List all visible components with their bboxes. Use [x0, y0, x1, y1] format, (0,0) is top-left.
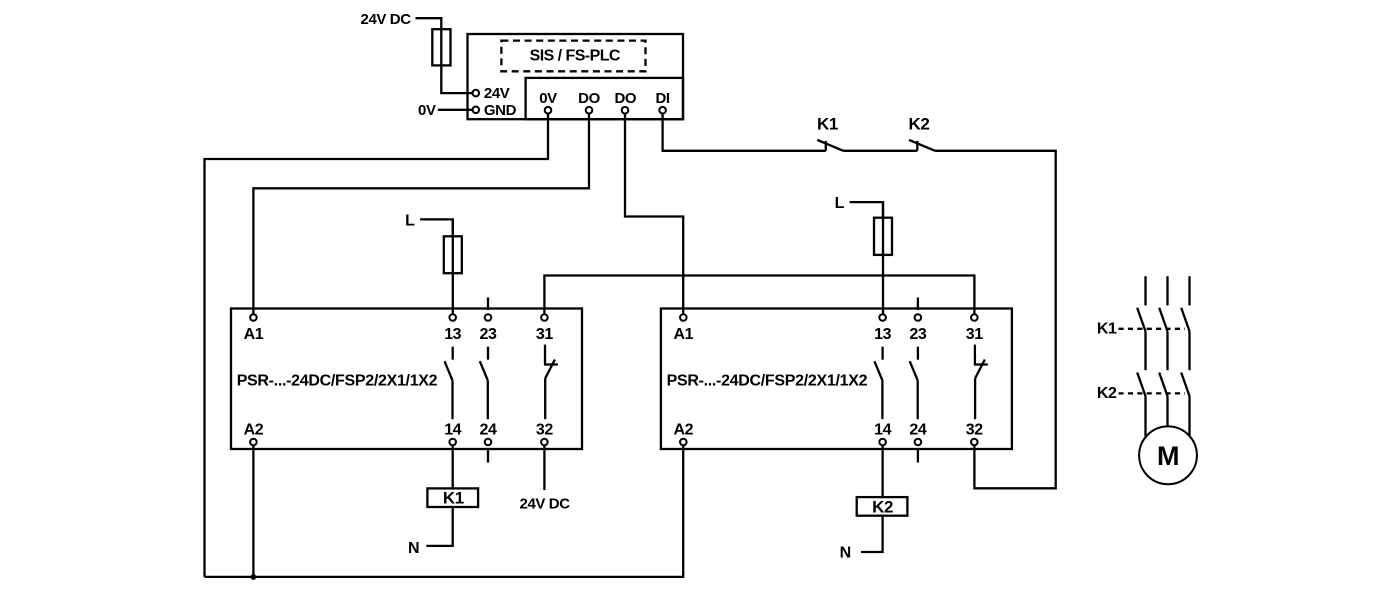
dashed box SIS / FS-PLC: [501, 41, 645, 72]
wire 14 relay1 to coil K1: [452, 445, 454, 488]
wire 0V label to GND terminal: [438, 109, 473, 111]
svg-text:A1: A1: [673, 326, 693, 343]
contact 13-14 NO of relay 1: [445, 347, 453, 420]
svg-text:K1: K1: [443, 489, 464, 508]
fuse F2: [444, 219, 462, 313]
svg-text:K1: K1: [817, 115, 838, 134]
svg-text:31: 31: [966, 326, 983, 343]
terminal A2 of relay 2: [680, 439, 687, 446]
svg-text:L: L: [405, 212, 415, 229]
relay box relay 2: [661, 309, 1012, 450]
wire fuse F1 to 24V terminal: [441, 65, 472, 93]
wire DO2 to A1 of relay 2: [625, 114, 683, 314]
contact 23-24 NO of relay 1: [480, 347, 488, 420]
svg-text:14: 14: [444, 421, 461, 438]
svg-text:32: 32: [536, 421, 553, 438]
terminal 13 of relay 1: [449, 314, 456, 321]
wire phase L2 supply stub: [1166, 276, 1168, 305]
terminal 32 of relay 2: [971, 439, 978, 446]
svg-text:24V DC: 24V DC: [520, 495, 571, 512]
svg-text:DO: DO: [614, 90, 636, 107]
motor M circle: [1139, 426, 1197, 484]
svg-text:M: M: [1157, 441, 1179, 471]
contactor K1 pole 3 blade: [1181, 308, 1189, 332]
terminal DO1 of U1: [586, 107, 593, 114]
contact 13-14 NO of relay 2: [874, 347, 882, 420]
svg-text:31: 31: [536, 326, 553, 343]
terminal 23 of relay 1: [485, 314, 492, 321]
wire phase L3 supply stub: [1188, 276, 1190, 305]
wire DO1 to A1 of relay 1: [253, 114, 589, 314]
wire K2 contact to 32 of relay 2: [935, 151, 1056, 489]
terminal A1 of relay 1: [250, 314, 257, 321]
stub above terminal 23 relay 2: [917, 298, 919, 311]
terminal 24 of relay 1: [485, 439, 492, 446]
wire L to fuse F3: [850, 202, 883, 218]
wire 31 relay1 to 31 relay2: [544, 276, 974, 314]
stub below terminal 24 relay 2: [917, 449, 919, 463]
svg-text:13: 13: [444, 326, 461, 343]
svg-text:A2: A2: [673, 421, 693, 438]
terminal A1 of relay 2: [680, 314, 687, 321]
terminal 14 of relay 1: [449, 439, 456, 446]
svg-text:L: L: [835, 195, 845, 212]
svg-text:PSR-...-24DC/FSP2/2X1/1X2: PSR-...-24DC/FSP2/2X1/1X2: [667, 372, 868, 389]
contact K2 NC blade: [909, 140, 935, 151]
coil K2 box: [857, 497, 908, 516]
wire 32 relay1 to 24VDC: [543, 445, 545, 490]
contact 31-32 NC of relay 1: [544, 345, 558, 420]
linkage dashed line K1: [1119, 328, 1185, 330]
contact K1 NC blade: [817, 140, 843, 151]
svg-text:A2: A2: [244, 421, 264, 438]
svg-text:PSR-...-24DC/FSP2/2X1/1X2: PSR-...-24DC/FSP2/2X1/1X2: [237, 372, 438, 389]
contact K1 NC seat: [825, 141, 827, 151]
wire coil K1 to N: [426, 507, 452, 546]
svg-text:K2: K2: [1097, 385, 1117, 402]
wire K2 pole 1 to motor: [1144, 396, 1146, 436]
svg-text:K1: K1: [1097, 321, 1117, 338]
contactor K2 pole 3 blade: [1181, 373, 1189, 397]
wire K2 pole 2 to motor: [1166, 396, 1168, 426]
svg-text:GND: GND: [484, 102, 517, 119]
wire phase L1 supply stub: [1144, 276, 1146, 305]
wire bottom bus to A2 relay 2: [205, 445, 684, 577]
wire coil K2 to N: [861, 516, 883, 552]
PLC terminal strip box: [526, 78, 683, 119]
svg-text:K2: K2: [909, 115, 930, 134]
terminal 14 of relay 2: [879, 439, 886, 446]
terminal 31 of relay 1: [541, 314, 548, 321]
svg-text:DI: DI: [655, 90, 669, 107]
wire K1 pole 1 to K2 pole 1: [1144, 331, 1146, 370]
stub above terminal 23 relay 1: [487, 298, 489, 311]
svg-text:K2: K2: [872, 497, 893, 516]
terminal 24 of relay 2: [915, 439, 922, 446]
svg-text:23: 23: [480, 326, 497, 343]
svg-text:SIS / FS-PLC: SIS / FS-PLC: [530, 48, 621, 65]
terminal 13 of relay 2: [879, 314, 886, 321]
stub below terminal 24 relay 1: [487, 449, 489, 463]
svg-text:A1: A1: [244, 326, 264, 343]
linkage dashed line K2: [1119, 392, 1185, 394]
relay box relay 1: [231, 309, 582, 450]
terminal GND of U1: [473, 107, 480, 114]
terminal DO2 of U1: [622, 107, 629, 114]
svg-text:24V: 24V: [484, 85, 510, 102]
terminal 23 of relay 2: [915, 314, 922, 321]
wire 0V net: PLC 0V terminal to left bus: [205, 114, 549, 577]
contactor K2 pole 2 blade: [1159, 373, 1167, 397]
coil K1 box: [427, 488, 478, 507]
contactor K1 pole 2 blade: [1159, 308, 1167, 332]
wire L to fuse F2: [420, 219, 453, 236]
svg-text:N: N: [840, 544, 851, 561]
terminal 0V of U1: [545, 107, 552, 114]
svg-text:13: 13: [874, 326, 891, 343]
fuse F1: [432, 29, 450, 65]
svg-text:24: 24: [909, 421, 926, 438]
terminal 32 of relay 1: [541, 439, 548, 446]
svg-text:23: 23: [909, 326, 926, 343]
contact 31-32 NC of relay 2: [974, 345, 988, 420]
svg-text:32: 32: [966, 421, 983, 438]
wire DI to contact K1: [663, 114, 826, 151]
terminal A2 of relay 1: [250, 439, 257, 446]
wire 14 relay2 to coil K2: [881, 445, 883, 497]
wire K2 pole 3 to motor: [1188, 396, 1190, 436]
wire 24VDC label to fuse F1: [416, 18, 442, 29]
fuse F3: [874, 202, 892, 314]
junction dot A2/0V bus: [251, 574, 257, 580]
svg-text:0V: 0V: [539, 90, 557, 107]
svg-text:14: 14: [874, 421, 891, 438]
PLC box U1 (SIS / FS-PLC): [468, 34, 684, 119]
terminal 31 of relay 2: [971, 314, 978, 321]
wire K1 contact to K2 contact: [843, 150, 917, 152]
contactor K1 pole 1 blade: [1137, 308, 1145, 332]
contact 23-24 NO of relay 2: [910, 347, 918, 420]
contact K2 NC seat: [916, 141, 918, 151]
terminal DI of U1: [659, 107, 666, 114]
svg-text:N: N: [408, 540, 419, 557]
wire A2 relay 1 to bottom bus: [252, 445, 254, 577]
svg-text:DO: DO: [578, 90, 600, 107]
svg-text:24: 24: [480, 421, 497, 438]
svg-text:0V: 0V: [418, 102, 436, 119]
terminal 24V of U1: [473, 90, 480, 97]
svg-text:24V DC: 24V DC: [361, 11, 412, 28]
wire K1 pole 2 to K2 pole 2: [1166, 331, 1168, 370]
contactor K2 pole 1 blade: [1137, 373, 1145, 397]
wire K1 pole 3 to K2 pole 3: [1188, 331, 1190, 370]
